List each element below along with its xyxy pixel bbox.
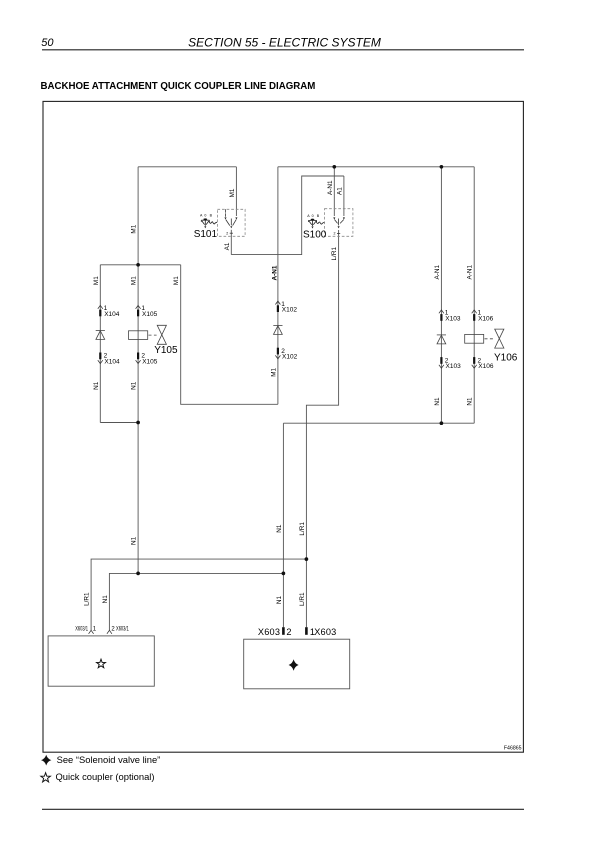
node M1 riser / bus <box>136 263 140 267</box>
svg-text:X105: X105 <box>142 311 158 318</box>
svg-text:A: A <box>200 214 203 218</box>
svg-text:Quick coupler (optional): Quick coupler (optional) <box>56 771 155 782</box>
svg-text:2: 2 <box>286 627 291 637</box>
svg-text:N1: N1 <box>434 397 441 406</box>
connector X105 pin 1 <box>136 305 158 318</box>
svg-text:X103: X103 <box>446 363 462 370</box>
svg-text:BACKHOE ATTACHMENT QUICK COUPL: BACKHOE ATTACHMENT QUICK COUPLER LINE DI… <box>41 81 316 92</box>
svg-text:X603: X603 <box>258 627 280 637</box>
svg-text:L/R1: L/R1 <box>299 522 306 536</box>
wire X105 branch vertical N1 <box>137 265 139 574</box>
wire N1 right bus <box>283 422 474 424</box>
wire A-N1 right drop to X106 <box>473 167 475 423</box>
solenoid valve line box (right) <box>244 639 350 689</box>
S101 actuator A-0-B <box>201 220 217 226</box>
svg-text:X603: X603 <box>314 627 336 637</box>
wire N1 middle vertical <box>282 423 284 627</box>
connector X102 pin 2 <box>275 348 297 361</box>
dashed link to valve Y105 <box>149 334 157 336</box>
wire M1 feed into S101 <box>235 167 237 216</box>
svg-text:M1: M1 <box>131 276 138 285</box>
connector X103 pin 1 <box>439 310 461 323</box>
svg-text:0: 0 <box>204 214 206 218</box>
wire top bus A-N1 right segment <box>278 166 474 168</box>
wire X104 bottom link to X105 branch <box>100 422 138 424</box>
wire M1 riser left <box>137 167 139 265</box>
svg-text:S101: S101 <box>194 229 218 240</box>
svg-text:1: 1 <box>93 627 97 633</box>
solenoid valve Y105 <box>157 325 166 344</box>
svg-text:SECTION 55 - ELECTRIC SYSTEM: SECTION 55 - ELECTRIC SYSTEM <box>188 35 381 49</box>
node top bus / S100 feed <box>332 165 336 169</box>
diode at X104 <box>96 330 105 339</box>
svg-text:M1: M1 <box>173 276 180 285</box>
connector X105 pin 2 <box>136 353 158 366</box>
svg-text:L/R1: L/R1 <box>331 247 338 261</box>
node X105 / lower horizontal <box>136 572 140 576</box>
header rule <box>42 49 524 51</box>
connector X603/1 pin 2 chevron <box>107 630 112 634</box>
quick coupler star symbol <box>97 659 106 668</box>
connector X106 pin 1 <box>472 310 494 323</box>
svg-text:A-N1: A-N1 <box>467 264 474 279</box>
diagram border frame <box>43 101 523 752</box>
wire A1 link S100 to S101 <box>231 176 344 255</box>
wire M1 bus horizontal <box>100 264 180 266</box>
node top bus / X103 drop <box>440 165 444 169</box>
wire X102 branch vertical A-N1/M1 <box>277 167 279 404</box>
svg-text:X106: X106 <box>478 363 494 370</box>
wire M1 third drop <box>181 265 278 405</box>
connector X603 pin 1 bar <box>305 627 308 635</box>
bottom rule <box>42 808 524 810</box>
svg-text:L/R1: L/R1 <box>299 592 306 606</box>
relay coil Y106 <box>465 334 484 343</box>
wire A1 feed into S100 <box>343 176 345 216</box>
relay coil Y105 <box>129 331 148 340</box>
S100 actuator A-0-B <box>309 220 325 226</box>
diode at X103 <box>437 335 446 344</box>
connector X103 pin 2 <box>439 357 461 370</box>
node L/R1 tee <box>305 557 309 561</box>
svg-text:A1: A1 <box>336 187 343 195</box>
connector X102 pin 1 <box>275 301 297 314</box>
svg-text:B: B <box>210 214 213 218</box>
wire X104 branch vertical <box>99 265 101 423</box>
svg-text:2: 2 <box>334 232 336 236</box>
node N1 tee lower <box>282 572 286 576</box>
wire S100 bottom pin L/R1 <box>306 230 338 627</box>
svg-text:See “Solenoid valve line”: See “Solenoid valve line” <box>57 754 161 765</box>
svg-text:0: 0 <box>312 214 314 218</box>
connector X104 pin 2 <box>98 353 120 366</box>
svg-text:X106: X106 <box>478 315 494 322</box>
svg-text:N1: N1 <box>467 397 474 406</box>
connector X603/1 pin 1 chevron <box>89 630 94 634</box>
svg-text:X102: X102 <box>282 307 298 314</box>
svg-text:Y105: Y105 <box>154 345 178 356</box>
wire A-N1 right drop to X103 <box>440 167 442 423</box>
svg-text:B: B <box>317 214 320 218</box>
node X104-X105 join <box>136 421 140 425</box>
node right bus / X103 <box>440 421 444 425</box>
solenoid valve Y106 <box>495 329 504 348</box>
svg-text:X102: X102 <box>282 354 298 361</box>
svg-text:N1: N1 <box>276 524 283 533</box>
svg-text:X603/1: X603/1 <box>75 627 88 633</box>
svg-text:M1: M1 <box>229 188 236 197</box>
svg-text:A: A <box>307 214 310 218</box>
switch S101 <box>217 209 245 236</box>
svg-text:X105: X105 <box>142 358 158 365</box>
svg-text:50: 50 <box>41 37 54 49</box>
svg-text:M1: M1 <box>93 276 100 285</box>
svg-text:X104: X104 <box>104 358 120 365</box>
svg-text:N1: N1 <box>131 536 138 545</box>
svg-text:A1: A1 <box>224 242 231 250</box>
svg-text:N1: N1 <box>102 595 109 604</box>
wire N1 lower horizontal to left box <box>109 573 283 630</box>
svg-text:M1: M1 <box>270 367 277 376</box>
svg-text:N1: N1 <box>93 381 100 390</box>
connector X104 pin 1 <box>98 305 120 318</box>
svg-text:2: 2 <box>111 627 115 633</box>
wire L/R1 upper horizontal to left box <box>91 559 306 630</box>
switch S100 <box>325 209 353 237</box>
svg-text:M1: M1 <box>131 224 138 233</box>
svg-text:Y106: Y106 <box>494 353 518 364</box>
svg-text:S100: S100 <box>303 229 327 240</box>
wire S101 bottom pin A1 <box>230 230 232 255</box>
svg-text:N1: N1 <box>276 595 283 604</box>
diode at X102 <box>273 325 282 334</box>
svg-text:N1: N1 <box>131 381 138 390</box>
svg-text:L/R1: L/R1 <box>84 592 91 606</box>
svg-text:X603/1: X603/1 <box>116 627 129 633</box>
wire top bus M1 left segment <box>138 166 236 168</box>
svg-text:X104: X104 <box>104 311 120 318</box>
solenoid valve line star symbol <box>289 659 299 670</box>
connector X603 pin 2 bar <box>282 627 285 635</box>
svg-text:A-N1: A-N1 <box>434 264 441 279</box>
svg-text:2: 2 <box>226 231 228 235</box>
quick coupler box (left) <box>48 636 154 686</box>
wire A-N1 feed into S100 <box>333 167 335 216</box>
svg-text:A-N1: A-N1 <box>271 265 278 280</box>
svg-text:X103: X103 <box>445 315 461 322</box>
svg-text:F46865: F46865 <box>504 746 522 752</box>
connector X106 pin 2 <box>472 357 494 370</box>
svg-text:A-N1: A-N1 <box>327 180 334 195</box>
legend star symbol <box>41 773 51 782</box>
dashed link to valve Y106 <box>485 338 494 340</box>
legend solenoid symbol <box>41 755 51 766</box>
